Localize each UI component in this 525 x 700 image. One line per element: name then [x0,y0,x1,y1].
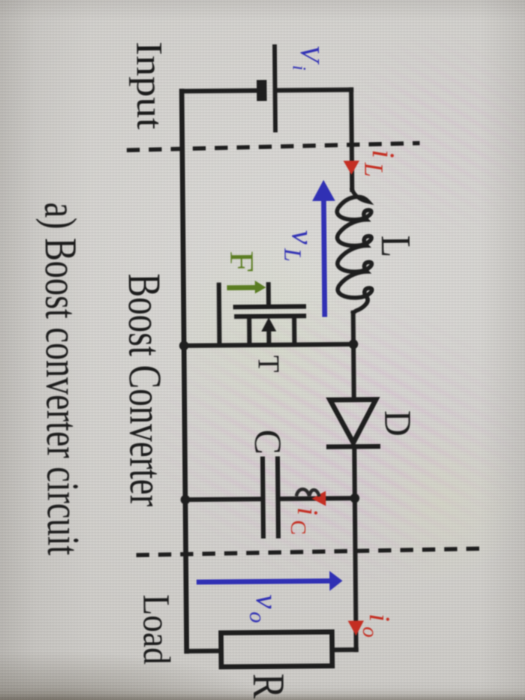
svg-text:L: L [358,161,387,177]
svg-text:o: o [244,611,269,623]
svg-text:v: v [285,229,321,244]
svg-text:i: i [288,65,309,70]
node C (top rail / capacitor junction) [349,493,359,503]
voltage arrow vL (blue) [312,179,336,316]
transistor Q1 channel bar [234,313,306,318]
transistor source reference lead [216,284,221,344]
resistor R1 box [220,631,331,666]
transistor gate lead [266,284,271,304]
capacitor C1 bottom plate [260,456,265,538]
transistor source stub [246,316,251,344]
voltage arrow vo (blue, pointing up) [196,570,342,591]
svg-text:D: D [376,410,418,436]
wire load box to bottom rail [187,648,221,653]
transistor Q1 gate bar [233,304,306,309]
wire top rail left (battery to inductor) [348,89,353,189]
wire battery bottom lead [181,88,256,93]
node A (top rail / transistor junction) [348,339,358,349]
capacitor C1 bottom lead [185,496,261,501]
current arrow io (red head on rail) [347,620,363,635]
current arrow iC (red, pointing down into capacitor) [311,490,325,505]
wire right drop to load box [332,647,356,652]
svg-text:F: F [222,250,259,272]
iC arrow tail curls [296,489,319,497]
svg-text:C: C [246,429,288,454]
transistor Q1 main drain-source line [183,344,352,345]
battery V1 long plate [272,44,277,132]
svg-text:i: i [290,506,323,515]
node D (bottom rail / capacitor junction) [180,494,190,504]
svg-text:Load: Load [134,594,177,664]
dashed separator converter/load [136,548,480,555]
wire top rail mid (inductor to diode) [350,312,355,399]
svg-text:Boost Converter: Boost Converter [117,273,171,507]
inductor L1 coil [336,189,371,312]
svg-text:v: v [249,594,285,609]
svg-text:L: L [371,235,417,257]
battery V1 short thick plate [256,79,266,100]
svg-text:L: L [278,247,304,262]
svg-text:a) Boost converter circuit: a) Boost converter circuit [35,202,88,556]
dashed separator input/converter [126,143,419,150]
wire bottom rail [181,91,186,651]
svg-text:Input: Input [127,41,169,130]
svg-text:V: V [294,44,324,65]
transistor drain stub [291,316,296,344]
capacitor C1 top plate [275,456,280,538]
capacitor C1 top lead [279,495,354,500]
svg-text:C: C [285,520,310,535]
diode D1 triangle outline [329,399,375,442]
svg-text:i: i [365,149,401,158]
gate signal arrow F (green) [226,280,265,293]
wire top rail right (diode to load corner) [354,446,356,649]
wire battery top lead [277,87,351,92]
svg-text:R: R [243,673,293,698]
transistor substrate lead [266,330,271,344]
svg-text:o: o [357,626,382,637]
svg-text:i: i [362,613,395,622]
transistor substrate arrow [261,317,276,331]
svg-text:T: T [251,355,286,372]
node B (bottom rail / transistor junction) [179,340,189,350]
diode D1 cathode bar [326,443,380,448]
current arrow iL (red head) [343,160,359,174]
